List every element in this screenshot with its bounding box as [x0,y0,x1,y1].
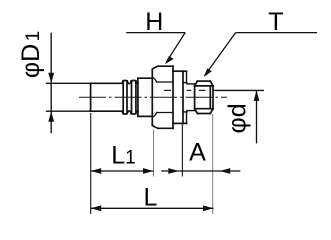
shoulder collar [136,78,152,116]
washer (flange) [173,71,187,123]
dimension phi D1 arrowheads [48,73,54,84]
dimension L1 arrowheads [91,168,102,174]
dimension phi d extension line [213,89,264,91]
hidden bore line (phi d reference dashes) [164,89,206,91]
hex nut chamfer lines [153,78,173,117]
dimension phi d arrowhead [254,90,260,101]
svg-text:A: A [189,138,206,166]
centerline (axis) [79,96,227,98]
svg-text:T: T [268,8,283,36]
extension lines (stem end, washer face) [91,113,183,214]
dimension phi d line [256,90,258,143]
extension lines (hex face, thread end) [154,114,213,214]
leader arrowhead H [165,56,174,64]
dimension A line (outside arrows) [161,170,240,172]
hex nut body (width across flats H) [152,66,173,128]
coupling ridge 1 [123,81,127,115]
leader line T [205,33,317,75]
plug stem (barrel, dia D1) [91,81,124,114]
dimension L line [91,207,214,209]
dimension phi D1 extension lines [46,83,90,111]
svg-text:H: H [145,8,163,36]
coupling ridge 2 [131,81,136,115]
gasket ring [183,71,187,123]
dimension L1 line [91,170,154,172]
svg-text:L: L [144,184,158,212]
neck [187,84,195,111]
dimension A arrowheads [168,168,179,174]
leader arrowhead T [204,68,212,77]
dimension phi D1 line [50,33,52,134]
locking groove [127,81,131,114]
male thread (size T, dia d) [195,81,213,113]
leader line H [126,33,185,62]
svg-text:φd: φd [223,103,251,133]
dimension L arrowheads [91,205,102,211]
